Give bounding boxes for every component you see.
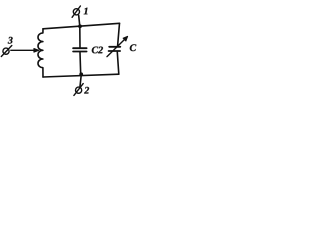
label 2 xyxy=(84,87,89,94)
wire terminal 2 stub xyxy=(80,74,81,86)
wire C2 upper stub xyxy=(79,26,81,47)
junction node bottom xyxy=(79,72,83,76)
wire right branch up from bottom corner xyxy=(117,52,119,74)
capacitor C2 xyxy=(73,48,87,51)
label C xyxy=(130,44,136,51)
terminal 3 xyxy=(1,46,12,57)
wire terminal 1 stub xyxy=(79,15,80,26)
inductor L1 xyxy=(38,29,43,77)
label C2 xyxy=(92,47,103,54)
wire C2 lower stub xyxy=(79,53,82,75)
wire top horizontal xyxy=(43,23,120,29)
junction node top xyxy=(78,24,82,28)
variable capacitor C xyxy=(109,47,121,51)
variable capacitor arrow xyxy=(107,38,126,57)
wire arrow from terminal 3 to coil tap xyxy=(11,49,37,51)
wire right branch down from top corner xyxy=(118,23,120,46)
terminal 2 xyxy=(74,84,83,96)
terminal 1 xyxy=(72,6,80,17)
label 1 xyxy=(84,8,88,15)
label 3 xyxy=(8,37,13,44)
wire bottom horizontal xyxy=(43,74,119,77)
